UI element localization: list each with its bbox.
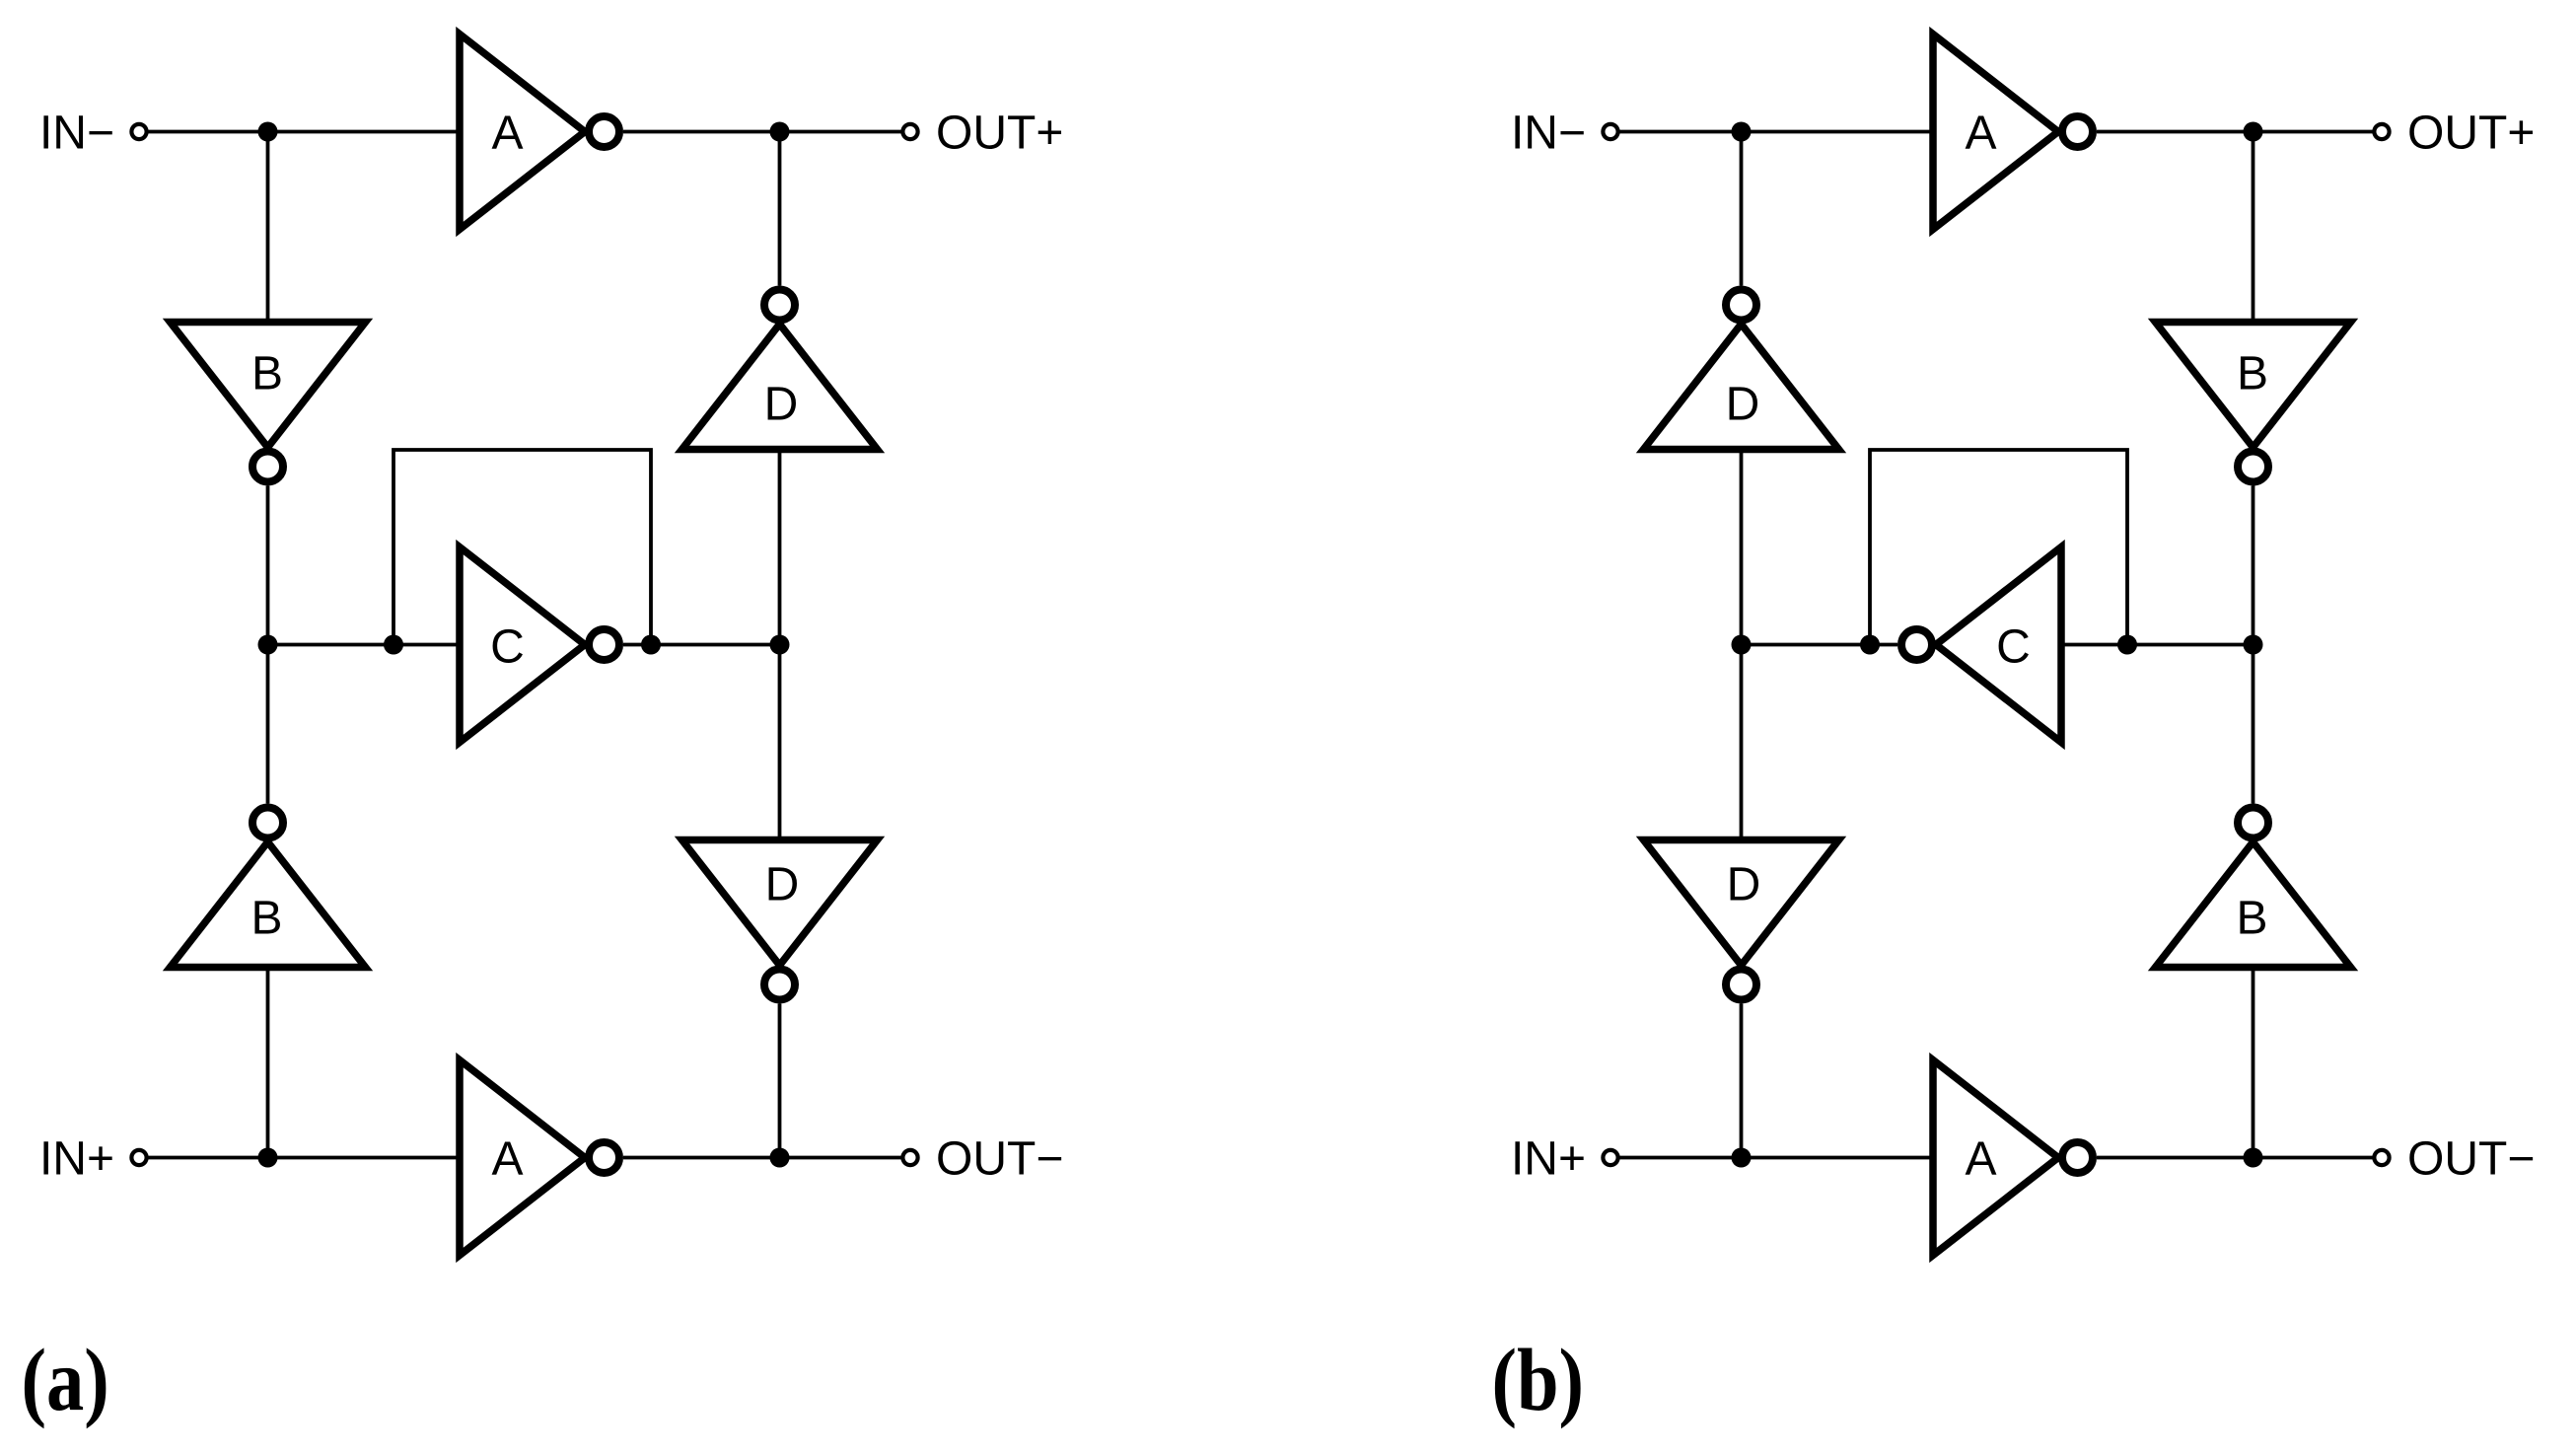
wire A output to OUT+ junction (a): [623, 130, 780, 134]
wire junction to OUT- terminal (b): [2254, 1156, 2374, 1160]
svg-text:A: A: [491, 107, 523, 159]
bubble inverter A (a, IN+ row): [589, 1142, 619, 1173]
junction IN- node (b): [1732, 122, 1752, 142]
junction B column mid rail (a): [258, 635, 278, 655]
terminal IN- (b): [1603, 124, 1617, 139]
junction OUT+ node (b): [2244, 122, 2263, 142]
junction D column mid rail (a): [770, 635, 790, 655]
junction OUT- node (b): [2244, 1148, 2263, 1168]
wire junction to inverter A input (b IN+): [1742, 1156, 1934, 1160]
svg-text:D: D: [765, 858, 800, 910]
svg-text:B: B: [2236, 892, 2267, 944]
svg-text:B: B: [251, 347, 283, 400]
wire input junction down to inverter B upper (b): [2252, 132, 2255, 323]
junction feedback right on mid rail (b): [2117, 635, 2137, 655]
wire junction to OUT+ terminal (b): [2254, 130, 2374, 134]
terminal OUT+ (a): [902, 124, 917, 139]
wire IN- terminal to junction (a): [148, 130, 268, 134]
terminal IN- (a): [131, 124, 146, 139]
wire D upper base to mid rail (a): [778, 450, 782, 645]
inverter A (b, IN+ row): [1933, 1060, 2058, 1256]
wire D upper base to mid rail (b): [1740, 450, 1744, 645]
wire B upper output to mid rail (a): [266, 486, 270, 645]
bubble inverter B upper (b): [2238, 452, 2268, 482]
junction OUT+ node (a): [770, 122, 790, 142]
bubble inverter D lower (a): [764, 970, 795, 1000]
junction B column mid rail (b): [2244, 635, 2263, 655]
terminal IN+ (a): [131, 1150, 146, 1165]
bubble inverter A (a, IN- row): [589, 116, 619, 147]
bubble inverter C (b): [1901, 629, 1932, 660]
svg-text:D: D: [1727, 858, 1761, 910]
bubble inverter B upper (a): [252, 452, 283, 482]
svg-text:D: D: [1726, 378, 1760, 430]
wire A output to OUT+ junction (b): [2097, 130, 2254, 134]
svg-text:OUT−: OUT−: [2407, 1132, 2535, 1185]
svg-text:C: C: [490, 620, 525, 673]
junction IN- node (a): [258, 122, 278, 142]
wire B upper output to mid rail (b): [2252, 486, 2255, 645]
wire B lower base to bottom rail (b): [2252, 968, 2255, 1158]
wire junction to OUT+ terminal (a): [780, 130, 902, 134]
bubble inverter B lower (b): [2238, 808, 2268, 838]
junction feedback right on mid rail (a): [641, 635, 661, 655]
bubble inverter C (a): [589, 629, 619, 660]
terminal OUT- (a): [902, 1150, 917, 1165]
wire output junction down to inverter D upper (a): [778, 132, 782, 286]
terminal OUT- (b): [2374, 1150, 2389, 1165]
inverter C (b): [1936, 547, 2061, 743]
wire C output to D column (a): [623, 643, 780, 647]
wire D lower output to bottom rail (b): [1740, 1004, 1744, 1158]
wire mid rail B column to C input (a): [268, 643, 461, 647]
wire IN- terminal to junction (b): [1619, 130, 1742, 134]
inverter B upper (b): [2156, 323, 2351, 448]
wire junction to inverter A input (b IN-): [1742, 130, 1934, 134]
wire mid rail down to inverter B lower (b): [2252, 645, 2255, 804]
inverter B lower (a): [171, 842, 366, 968]
wire input junction down to inverter B upper (a): [266, 132, 270, 323]
svg-text:B: B: [250, 892, 282, 944]
inverter D lower (b): [1644, 840, 1839, 966]
bubble inverter D upper (a): [764, 290, 795, 321]
svg-text:OUT+: OUT+: [936, 107, 1063, 159]
wire A output to OUT- junction (b): [2097, 1156, 2254, 1160]
inverter A (b, IN- row): [1933, 35, 2058, 230]
wire feedback loop around C (b): [1870, 450, 2127, 645]
inverter D upper (a): [682, 325, 878, 450]
svg-text:IN−: IN−: [1511, 107, 1586, 159]
inverter B upper (a): [171, 323, 366, 448]
junction IN+ node (b): [1732, 1148, 1752, 1168]
svg-text:B: B: [2237, 347, 2268, 400]
bubble inverter A (b, IN+ row): [2062, 1142, 2093, 1173]
svg-text:(b): (b): [1492, 1332, 1584, 1429]
wire C input to B column (b): [2061, 643, 2254, 647]
bubble inverter D lower (b): [1726, 970, 1756, 1000]
terminal OUT+ (b): [2374, 124, 2389, 139]
svg-text:D: D: [764, 378, 799, 430]
wire junction to OUT- terminal (a): [780, 1156, 902, 1160]
bubble inverter D upper (b): [1726, 290, 1756, 321]
inverter D upper (b): [1644, 325, 1839, 450]
junction D column mid rail (b): [1732, 635, 1752, 655]
inverter B lower (b): [2156, 842, 2351, 968]
svg-text:A: A: [1965, 107, 1996, 159]
bubble inverter A (b, IN- row): [2062, 116, 2093, 147]
svg-text:IN−: IN−: [39, 107, 114, 159]
wire mid rail D column to C output bubble (b): [1742, 643, 1898, 647]
wire junction to inverter A input (a IN-): [268, 130, 461, 134]
svg-text:(a): (a): [22, 1332, 109, 1429]
svg-text:IN+: IN+: [1511, 1132, 1586, 1185]
wire feedback loop around C (a): [394, 450, 651, 645]
wire output junction down to inverter D upper (b): [1740, 132, 1744, 286]
junction OUT- node (a): [770, 1148, 790, 1168]
inverter A (a, IN+ row): [460, 1060, 585, 1256]
wire mid rail down to inverter B lower (a): [266, 645, 270, 804]
inverter A (a, IN- row): [460, 35, 585, 230]
svg-text:OUT+: OUT+: [2407, 107, 2535, 159]
bubble inverter B lower (a): [252, 808, 283, 838]
wire A output to OUT- junction (a): [623, 1156, 780, 1160]
wire D lower output to bottom rail (a): [778, 1004, 782, 1158]
junction IN+ node (a): [258, 1148, 278, 1168]
junction feedback left on mid rail (a): [384, 635, 403, 655]
wire IN+ terminal to junction (a): [148, 1156, 268, 1160]
wire B lower base to bottom rail (a): [266, 968, 270, 1158]
wire IN+ terminal to junction (b): [1619, 1156, 1742, 1160]
svg-text:IN+: IN+: [39, 1132, 114, 1185]
svg-text:C: C: [1996, 620, 2031, 673]
wire mid rail down to inverter D lower (b): [1740, 645, 1744, 840]
terminal IN+ (b): [1603, 1150, 1617, 1165]
junction feedback left on mid rail (b): [1860, 635, 1880, 655]
wire junction to inverter A input (a IN+): [268, 1156, 461, 1160]
wire mid rail down to inverter D lower (a): [778, 645, 782, 840]
inverter D lower (a): [682, 840, 878, 966]
svg-text:OUT−: OUT−: [936, 1132, 1063, 1185]
svg-text:A: A: [491, 1132, 523, 1185]
svg-text:A: A: [1965, 1132, 1996, 1185]
inverter C (a): [460, 547, 585, 743]
